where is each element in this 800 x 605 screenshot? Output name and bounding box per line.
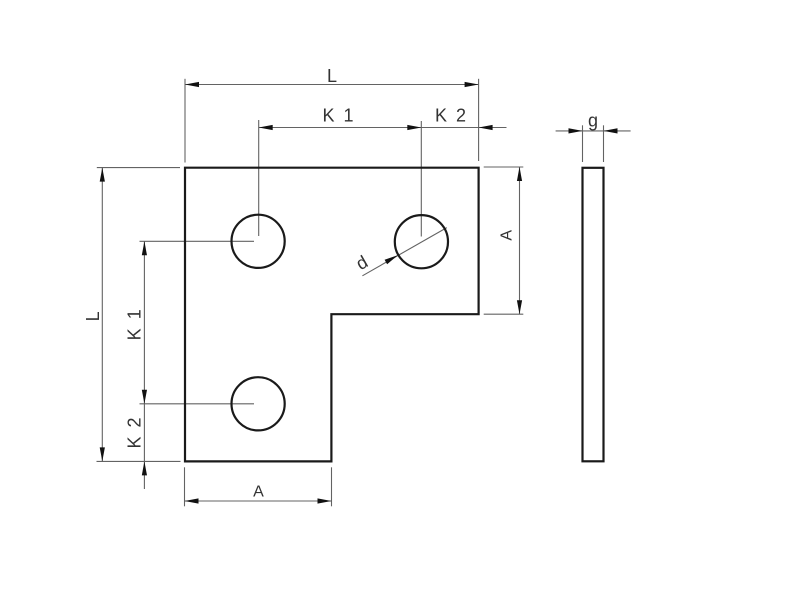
svg-text:K1: K1: [322, 106, 362, 126]
svg-text:L: L: [83, 311, 103, 321]
svg-text:K2: K2: [435, 106, 475, 126]
svg-text:A: A: [499, 230, 516, 241]
svg-text:K1: K1: [125, 300, 145, 340]
svg-text:A: A: [253, 484, 264, 501]
svg-text:L: L: [327, 66, 337, 86]
svg-text:K2: K2: [125, 408, 145, 448]
svg-text:g: g: [588, 111, 598, 131]
